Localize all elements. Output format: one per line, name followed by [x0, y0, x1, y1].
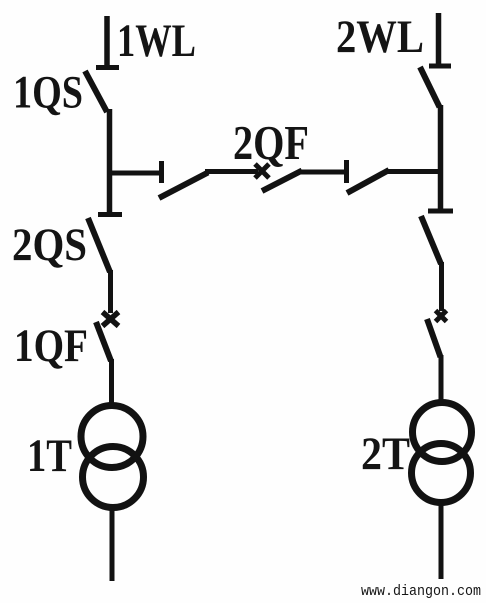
svg-text:1QF: 1QF: [14, 320, 88, 372]
svg-text:2WL: 2WL: [336, 11, 424, 63]
disconnector 2QS blade: [88, 218, 110, 272]
transformer 1T lower winding: [83, 447, 144, 508]
wire right mid vertical: [439, 262, 444, 311]
svg-text:2QF: 2QF: [233, 115, 309, 170]
line terminal 1WL bar: [96, 65, 119, 70]
svg-text:1WL: 1WL: [117, 15, 196, 67]
wire tie segment C: [386, 169, 441, 174]
left bus bottom bar: [98, 212, 122, 217]
wire left mid vertical: [108, 270, 113, 313]
transformer 2T lower winding: [412, 444, 471, 503]
svg-text:1T: 1T: [27, 430, 72, 482]
disconnector right top blade: [420, 67, 440, 107]
transformer 2T upper winding: [413, 403, 472, 462]
breaker right blade: [427, 319, 441, 357]
svg-text:1QS: 1QS: [13, 67, 83, 119]
wire tie segment A: [205, 169, 258, 174]
disconnector 1QS blade: [85, 71, 107, 112]
svg-text:www.diangon.com: www.diangon.com: [361, 583, 481, 600]
transformer 1T upper winding: [81, 406, 143, 468]
wire junction to tie: [109, 171, 162, 176]
wire tie segment B: [300, 170, 345, 175]
wire right to transformer: [439, 355, 444, 402]
wire right bus vertical: [438, 105, 444, 212]
line terminal 1WL stub: [104, 16, 110, 68]
svg-text:2QS: 2QS: [12, 219, 87, 271]
right bus bottom bar: [428, 209, 453, 214]
breaker 2QF cross mark: [255, 164, 269, 178]
wire left bus vertical: [107, 109, 113, 215]
line terminal 2WL stub: [436, 13, 442, 66]
line terminal 2WL bar: [429, 64, 451, 69]
tie switch blade C: [347, 170, 389, 193]
tie contact tick left: [159, 161, 164, 183]
tie switch blade A: [159, 173, 208, 199]
wire left tail: [110, 506, 115, 581]
wire right tail: [439, 503, 444, 579]
wire left to transformer: [109, 359, 114, 404]
breaker 1QF blade: [96, 322, 111, 361]
svg-text:2T: 2T: [361, 428, 410, 480]
disconnector right mid blade: [421, 216, 441, 264]
breaker right cross mark: [436, 311, 447, 322]
breaker 1QF cross mark: [103, 312, 119, 326]
tie switch blade B: [262, 171, 302, 192]
tie contact tick right: [344, 160, 349, 183]
